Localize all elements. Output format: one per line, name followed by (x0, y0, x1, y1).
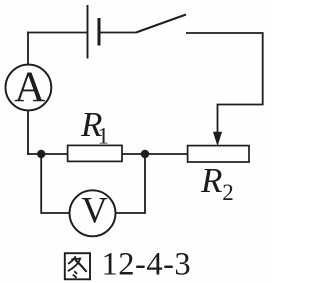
wire left vertical from top corner to ammeter (27, 32, 29, 65)
wire voltmeter branch right (116, 154, 145, 213)
rheostat R2 body (188, 146, 249, 162)
wire battery to switch pivot (99, 32, 136, 34)
wire top-left horizontal (27, 32, 87, 34)
battery cell: long positive plate (87, 5, 89, 59)
voltmeter V (70, 190, 116, 237)
wire main horizontal to R1 (27, 153, 68, 155)
svg-text:1: 1 (98, 124, 110, 149)
ammeter A (6, 64, 52, 111)
wire voltmeter branch left (41, 154, 69, 213)
svg-text:V: V (81, 190, 107, 231)
wire ammeter bottom to lower-left corner (27, 110, 29, 154)
switch S open blade (136, 15, 186, 33)
node dot left junction (37, 150, 45, 158)
label R2 (200, 161, 234, 205)
label R1 (80, 105, 109, 149)
battery cell: short negative plate (98, 18, 101, 46)
resistor R1 body (68, 145, 122, 161)
caption character 图 drawn as strokes (65, 253, 90, 279)
svg-text:12-4-3: 12-4-3 (102, 247, 192, 283)
svg-text:A: A (14, 64, 45, 111)
svg-text:R: R (200, 161, 222, 200)
wire R1 to right junction to R2 (122, 153, 188, 155)
wiper arrowhead onto R2 (213, 132, 221, 145)
caption text 12-4-3 (102, 247, 192, 283)
node dot right junction (141, 150, 149, 158)
svg-text:2: 2 (222, 180, 234, 205)
wire switch contact to top-right corner and down right side (186, 33, 263, 133)
